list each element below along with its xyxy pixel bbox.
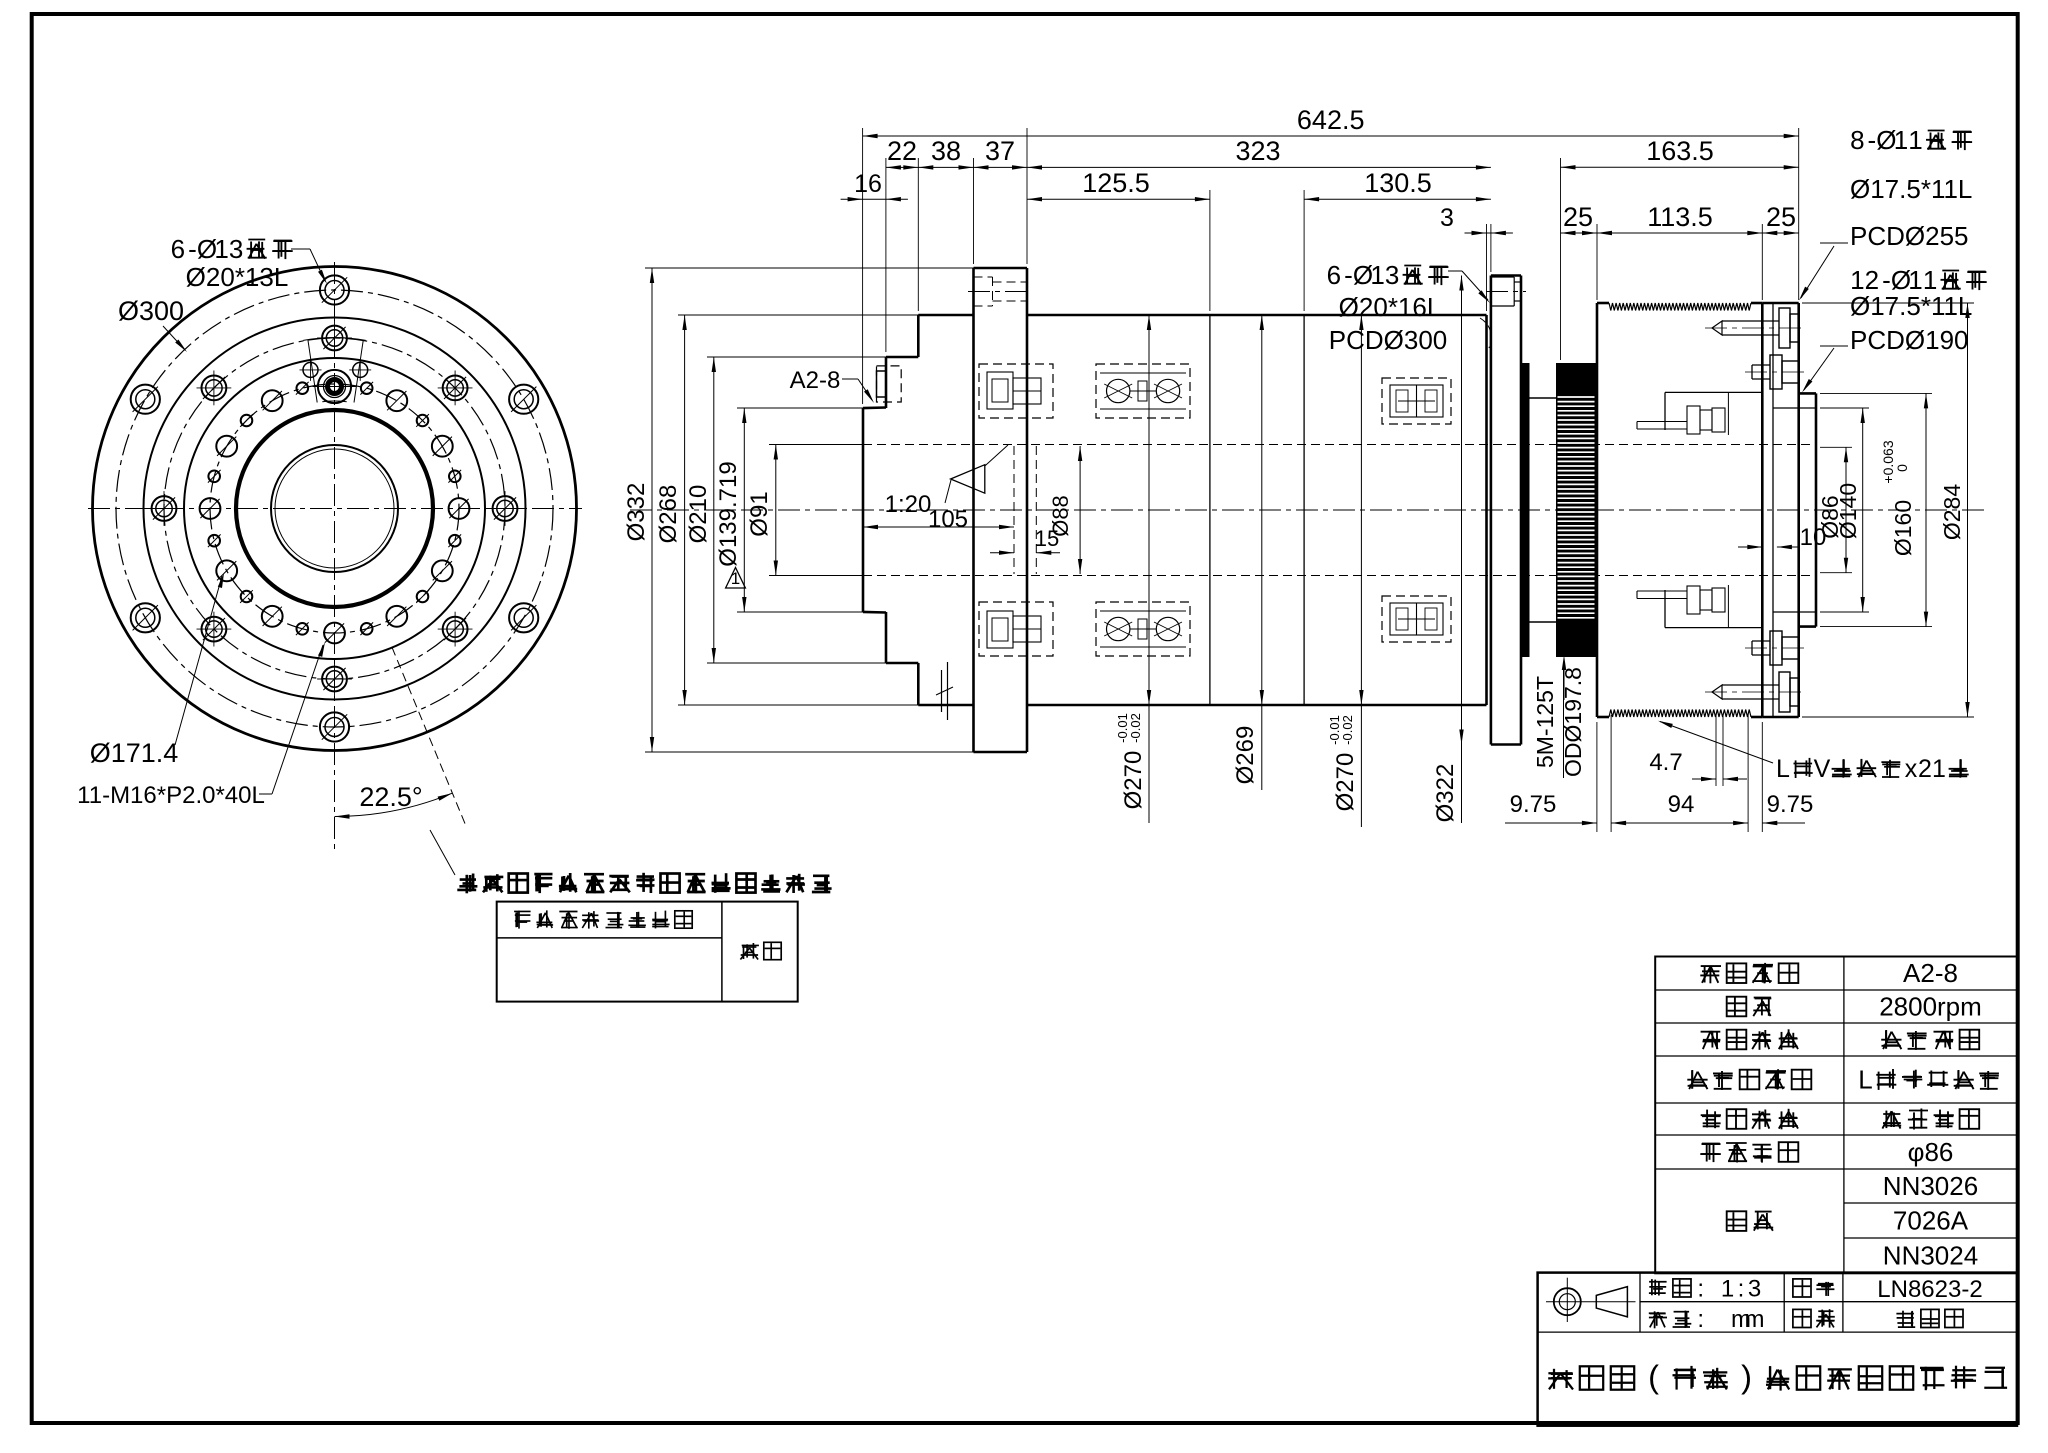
svg-text:7026A: 7026A [1893,1206,1969,1236]
svg-text:94: 94 [1668,791,1695,818]
svg-text:m: m [1745,1306,1765,1333]
svg-text:25: 25 [1563,202,1593,232]
svg-text:9.75: 9.75 [1767,791,1814,818]
svg-text:37: 37 [985,136,1015,166]
svg-text:Ø268: Ø268 [655,485,682,544]
svg-text:11-M16*P2.0*40L: 11-M16*P2.0*40L [77,782,265,809]
svg-text:L: L [1776,755,1790,783]
svg-text:5M-125T: 5M-125T [1532,676,1558,768]
svg-text:6: 6 [1327,260,1341,290]
svg-text:1: 1 [1370,260,1384,290]
svg-text:2: 2 [1918,755,1932,783]
svg-text:Ø300: Ø300 [118,296,184,326]
svg-text:Ø17.5*11L: Ø17.5*11L [1850,291,1972,321]
svg-text:22: 22 [887,136,917,166]
svg-text::: : [1738,1275,1745,1302]
svg-text:9.75: 9.75 [1510,791,1557,818]
svg-text:Ø332: Ø332 [623,483,650,542]
svg-text:A2-8: A2-8 [1903,958,1958,988]
svg-text::: : [1697,1306,1704,1333]
svg-text:6: 6 [171,234,185,264]
svg-text:1: 1 [1721,1275,1734,1302]
svg-text:105: 105 [928,506,968,533]
svg-text:+0.063: +0.063 [1880,440,1896,483]
svg-text:130.5: 130.5 [1364,168,1432,198]
svg-text:10: 10 [1800,524,1827,551]
svg-text:φ86: φ86 [1908,1137,1954,1167]
svg-text:1: 1 [1932,755,1946,783]
svg-text:0: 0 [1894,464,1910,472]
svg-text:3: 3 [1748,1275,1761,1302]
svg-text:Ø20*16L: Ø20*16L [1339,292,1442,322]
svg-text:x: x [1905,755,1918,783]
svg-text:-: - [1344,260,1353,290]
svg-text:Ø140: Ø140 [1835,483,1861,539]
svg-text:PCDØ255: PCDØ255 [1850,221,1969,251]
svg-text:Ø270: Ø270 [1120,751,1147,810]
svg-text:NN3026: NN3026 [1883,1171,1978,1201]
svg-text:16: 16 [854,170,882,198]
svg-text:-: - [1867,125,1876,155]
svg-text:Ø91: Ø91 [746,491,773,536]
svg-text:Ø322: Ø322 [1432,764,1459,823]
svg-text:1: 1 [1908,125,1922,155]
svg-text:-: - [188,234,197,264]
svg-text:Ø284: Ø284 [1939,484,1965,540]
svg-text:LN8623-2: LN8623-2 [1877,1276,1982,1303]
svg-text:Ø160: Ø160 [1890,500,1916,556]
svg-text:Ø139.719: Ø139.719 [715,461,742,566]
svg-text:PCDØ190: PCDØ190 [1850,325,1969,355]
svg-text:(: ( [1648,1359,1659,1395]
svg-text:NN3024: NN3024 [1883,1241,1978,1271]
svg-text:-0.02: -0.02 [1128,713,1143,743]
svg-text:1:20: 1:20 [885,491,932,518]
svg-text:113.5: 113.5 [1647,202,1713,232]
svg-text:Ø17.5*11L: Ø17.5*11L [1850,174,1972,204]
svg-text:Ø88: Ø88 [1048,495,1073,537]
svg-text:3: 3 [229,234,243,264]
svg-text:125.5: 125.5 [1082,168,1150,198]
svg-text::: : [1697,1275,1704,1302]
svg-text:38: 38 [931,136,961,166]
svg-text:1: 1 [731,569,740,588]
svg-text:22.5°: 22.5° [359,782,422,812]
svg-text:163.5: 163.5 [1646,136,1714,166]
svg-text:Ø270: Ø270 [1332,753,1359,812]
svg-text:L: L [1858,1065,1872,1095]
svg-text:3: 3 [1385,260,1399,290]
svg-text:Ø20*13L: Ø20*13L [186,262,289,292]
svg-text:8: 8 [1850,125,1864,155]
svg-text:1: 1 [1894,125,1908,155]
svg-text:-0.02: -0.02 [1340,715,1355,745]
svg-text:ODØ197.8: ODØ197.8 [1560,667,1586,777]
svg-text:Ø269: Ø269 [1232,726,1259,785]
svg-text:25: 25 [1766,202,1796,232]
svg-text:A2-8: A2-8 [790,367,841,394]
svg-text:): ) [1741,1359,1752,1395]
svg-text:4.7: 4.7 [1649,749,1682,776]
svg-text:3: 3 [1440,204,1454,232]
svg-text:Ø210: Ø210 [685,485,712,544]
svg-text:2800rpm: 2800rpm [1879,992,1982,1022]
svg-text:642.5: 642.5 [1297,105,1365,135]
svg-text:PCDØ300: PCDØ300 [1329,325,1448,355]
svg-text:Ø171.4: Ø171.4 [90,738,179,768]
svg-text:323: 323 [1235,136,1280,166]
svg-text:V: V [1814,755,1831,783]
svg-text:1: 1 [214,234,228,264]
